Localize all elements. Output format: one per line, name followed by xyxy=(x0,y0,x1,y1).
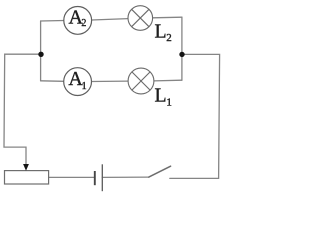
svg-text:L: L xyxy=(155,85,167,107)
svg-text:2: 2 xyxy=(166,32,172,44)
svg-text:L: L xyxy=(155,20,167,42)
svg-text:1: 1 xyxy=(82,81,87,92)
svg-text:2: 2 xyxy=(81,18,86,29)
svg-text:1: 1 xyxy=(166,96,172,108)
